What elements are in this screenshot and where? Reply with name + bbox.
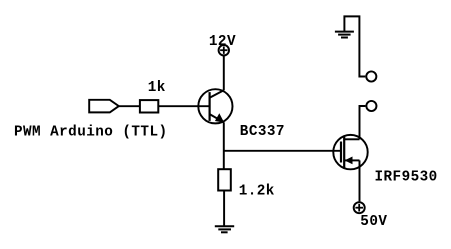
svg-text:BC337: BC337 — [240, 124, 285, 140]
transistor Q2 IRF9530 — [333, 135, 367, 169]
ground under R2 — [215, 226, 234, 232]
power supply 12V — [219, 45, 229, 55]
svg-text:12V: 12V — [209, 34, 236, 50]
wire Q1 collector to 12V — [223, 56, 225, 90]
wire R2 to ground — [223, 191, 225, 227]
wire emitter junction to Q2 gate — [224, 150, 341, 152]
terminal load low — [366, 101, 376, 111]
resistor R1 1k — [140, 100, 158, 112]
svg-text:1k: 1k — [148, 80, 166, 96]
wire Q2 drain up to terminal — [360, 106, 366, 139]
ground top right — [335, 32, 354, 38]
svg-text:IRF9530: IRF9530 — [375, 169, 438, 185]
wire tag to R1 — [119, 105, 141, 107]
wire Q1 emitter down to R2 — [223, 122, 225, 169]
terminal load high — [366, 71, 376, 81]
input terminal tag PWM Arduino (TTL) — [89, 100, 119, 113]
wire R1 to Q1 base — [158, 105, 209, 107]
svg-text:1.2k: 1.2k — [239, 184, 275, 200]
transistor Q1 BC337 — [198, 89, 232, 123]
power supply 50V — [354, 202, 365, 213]
svg-text:50V: 50V — [360, 214, 387, 230]
svg-text:PWM Arduino (TTL): PWM Arduino (TTL) — [14, 125, 168, 141]
resistor R2 1.2k — [218, 169, 231, 190]
wire Q2 source to 50V — [359, 160, 361, 201]
wire terminal to top ground — [344, 16, 365, 76]
